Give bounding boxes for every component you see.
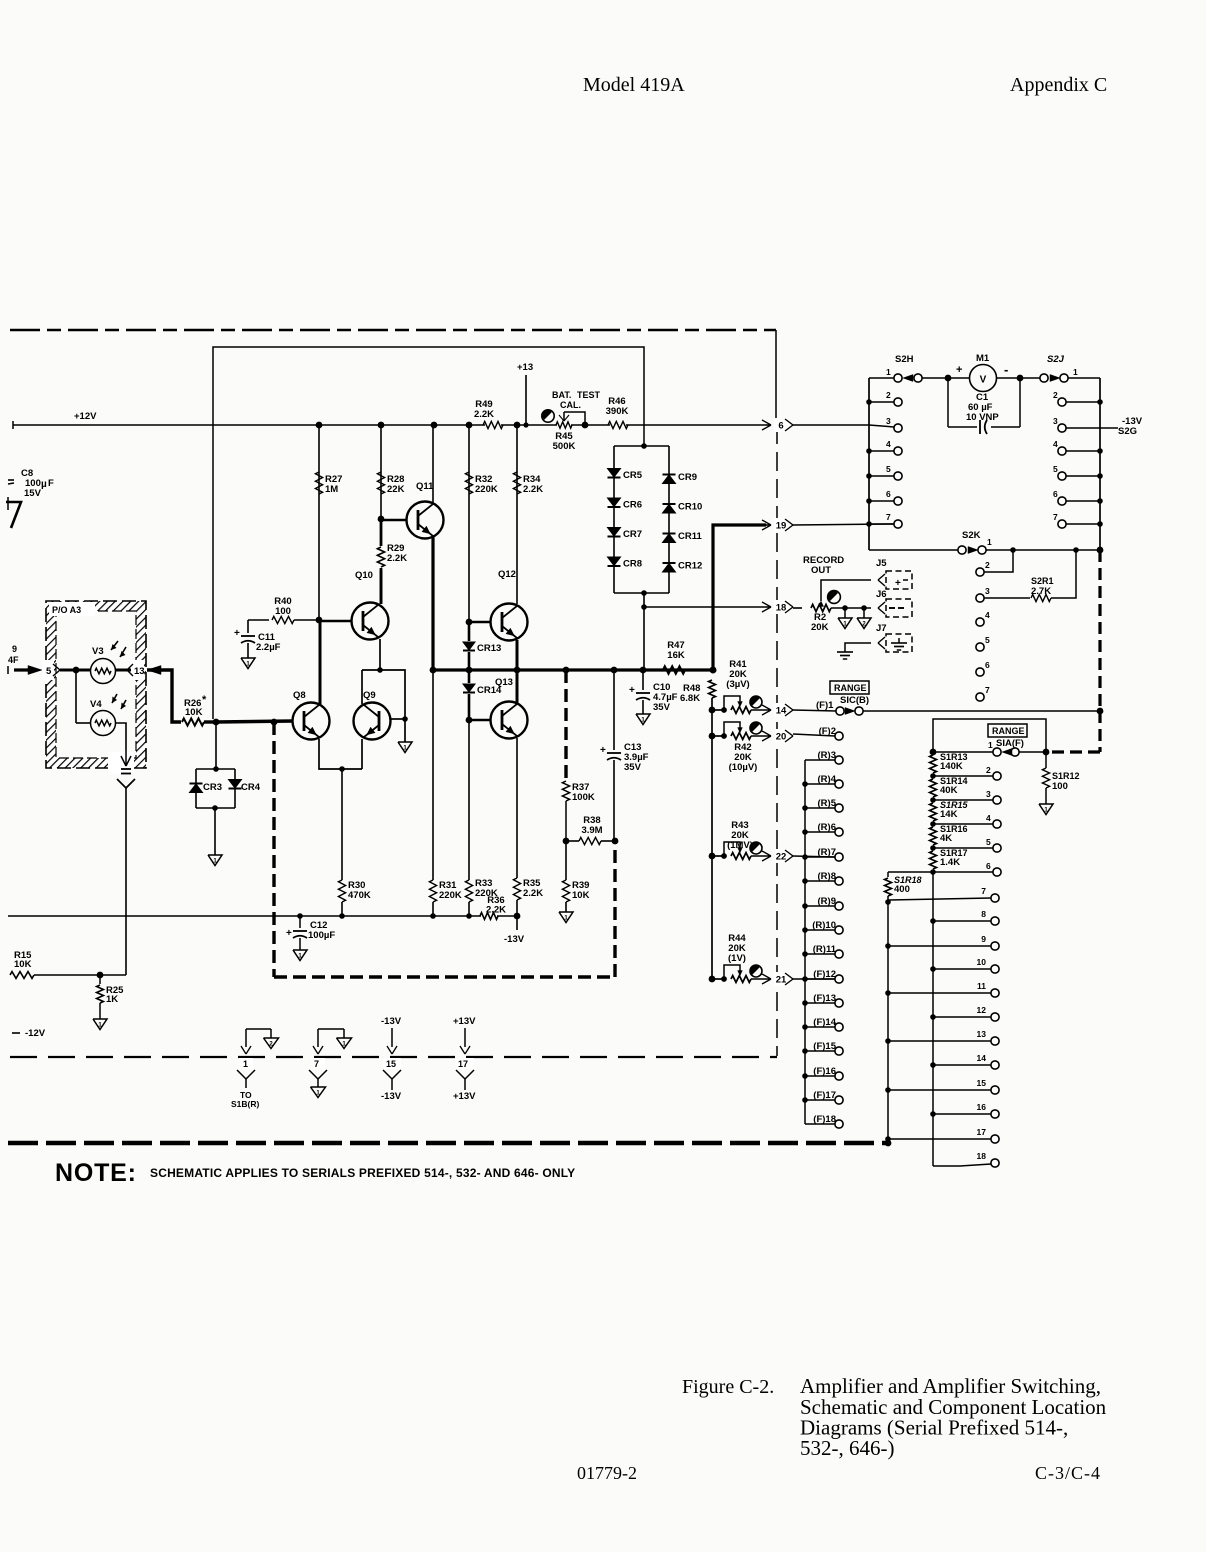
svg-text:1: 1 — [988, 740, 993, 750]
svg-text:+13V: +13V — [453, 1016, 476, 1027]
resistor R48 6.8K — [710, 667, 717, 674]
resistor R26* 10K — [182, 718, 204, 725]
pin 11 arrow out of module — [121, 756, 126, 766]
svg-text:100K: 100K — [572, 792, 595, 803]
svg-text:220K: 220K — [475, 484, 498, 495]
svg-text:J5: J5 — [876, 558, 887, 569]
Q9 emitter wire down — [361, 739, 363, 769]
thick dashed bottom border — [8, 1141, 888, 1146]
svg-text:CR4: CR4 — [241, 782, 261, 793]
svg-text:4K: 4K — [940, 833, 952, 844]
potentiometer R45 BAT TEST CAL — [556, 422, 572, 428]
svg-text:S2R1: S2R1 — [1031, 576, 1054, 586]
transistor Q8 — [293, 703, 330, 740]
contact (F)13 — [835, 999, 843, 1007]
svg-text:01779-2: 01779-2 — [577, 1463, 637, 1483]
-13V S2G tail — [1100, 427, 1118, 429]
svg-text:-12V: -12V — [25, 1028, 46, 1039]
transistor Q13 — [491, 702, 528, 739]
Q13 emitter wire — [516, 738, 518, 878]
svg-text:CR5: CR5 — [623, 470, 643, 481]
resistor S1R18 400 — [930, 869, 936, 875]
Q11 emitter wire (thick) — [431, 536, 434, 670]
node R15/R25 — [97, 972, 104, 979]
svg-text:4: 4 — [1053, 439, 1058, 449]
svg-text:NOTE:: NOTE: — [55, 1159, 137, 1187]
svg-text:C-3/C-4: C-3/C-4 — [1035, 1463, 1101, 1483]
ground below S1R12 — [1039, 804, 1053, 815]
svg-text:S2K: S2K — [962, 530, 981, 541]
resistor R27 1M — [318, 425, 320, 620]
-13V rail — [8, 915, 481, 917]
svg-text:S1R12: S1R12 — [1052, 771, 1080, 781]
connector 7 fragment at page edge — [6, 502, 21, 528]
svg-text:TEST: TEST — [577, 390, 601, 400]
svg-text:*: * — [202, 694, 207, 706]
diode bridge CR5-CR12 — [614, 445, 669, 447]
svg-text:3.9M: 3.9M — [581, 825, 602, 836]
contact (R)9 — [835, 902, 843, 910]
svg-text:CR14: CR14 — [477, 685, 502, 696]
svg-text:CAL.: CAL. — [560, 400, 581, 410]
lamp V3 — [91, 659, 116, 684]
thick input wire from R26 corner to pin13 — [147, 666, 161, 675]
svg-text:11: 11 — [977, 981, 986, 991]
connector 18 — [766, 606, 771, 608]
contact (R)6 — [835, 828, 843, 836]
svg-text:CR10: CR10 — [678, 502, 702, 513]
svg-text:M1: M1 — [976, 353, 990, 364]
RANGE label box SIC(B) — [830, 681, 869, 694]
svg-text:14: 14 — [776, 706, 787, 717]
svg-text:7: 7 — [981, 886, 986, 896]
svg-text:CR12: CR12 — [678, 561, 702, 572]
svg-text:2.2K: 2.2K — [523, 888, 543, 899]
capacitor C11 2.2uF — [247, 620, 249, 633]
ground below R25 — [93, 1019, 107, 1030]
Q9 ground — [404, 719, 406, 742]
svg-text:2.2K: 2.2K — [523, 484, 543, 495]
svg-text:2.2K: 2.2K — [387, 553, 407, 564]
loop around resistor chain — [933, 719, 1046, 752]
svg-text:3: 3 — [1053, 416, 1058, 426]
svg-text:(1V): (1V) — [728, 953, 746, 964]
transistor Q12 — [491, 604, 528, 641]
resistor R36 2.2K — [480, 913, 498, 920]
resistor R40 100 — [248, 619, 269, 621]
svg-text:SCHEMATIC APPLIES TO SERIAL: SCHEMATIC APPLIES TO SERIALS PREFIXED 51… — [150, 1166, 575, 1180]
input arrow from C9 — [7, 666, 9, 674]
diode CR13 — [468, 622, 471, 641]
connector 19 — [766, 524, 771, 526]
wire V3 to pin13 — [116, 669, 131, 672]
thick signal rail — [433, 668, 713, 671]
svg-text:1M: 1M — [325, 484, 338, 495]
svg-text:13: 13 — [134, 666, 145, 677]
ground below C11 — [241, 658, 255, 669]
svg-text:BAT.: BAT. — [552, 390, 571, 400]
contact (R)4 — [835, 780, 843, 788]
svg-text:14: 14 — [977, 1053, 987, 1063]
contact (R)7 — [835, 853, 843, 861]
svg-text:V4: V4 — [90, 699, 102, 710]
vertical dashed separator — [776, 425, 778, 1056]
svg-text:CR6: CR6 — [623, 500, 642, 511]
pin 11 mating fork — [117, 779, 126, 788]
Q12 base wire — [469, 621, 491, 624]
svg-text:7: 7 — [985, 685, 990, 695]
resistor R25 1K — [99, 975, 101, 984]
S2K contacts 4-7 open — [976, 618, 984, 626]
contact (F)12 — [835, 975, 843, 983]
wire pin5 to V3 — [60, 669, 90, 672]
svg-text:J7: J7 — [876, 623, 887, 634]
switch S2H bus — [868, 378, 870, 550]
svg-text:500K: 500K — [553, 441, 576, 452]
svg-text:CR8: CR8 — [623, 559, 642, 570]
svg-text:220K: 220K — [439, 890, 462, 901]
range divider chain S1R13-S1R17 — [930, 755, 937, 773]
Q13 base wire — [469, 719, 491, 722]
svg-text:1: 1 — [243, 1059, 248, 1069]
thick dashed wire S2K to range switch — [1098, 550, 1101, 711]
resistor R35 2.2K — [513, 878, 520, 900]
lamp V4 — [75, 670, 77, 723]
ground below C12 — [293, 950, 307, 961]
potentiometer R43 20K 1MV — [709, 853, 716, 860]
svg-text:1.4K: 1.4K — [940, 857, 960, 868]
contact (F)17 — [835, 1096, 843, 1104]
svg-text:2: 2 — [886, 390, 891, 400]
capacitor C13 3.9uF 35V — [613, 670, 615, 750]
svg-text:6.8K: 6.8K — [680, 693, 700, 704]
resistor R38 3.9M — [563, 838, 570, 845]
svg-text:1: 1 — [1073, 367, 1078, 377]
guard shield thick dashed stub — [564, 670, 567, 780]
svg-text:Model 419A: Model 419A — [583, 74, 685, 96]
svg-text:9: 9 — [981, 934, 986, 944]
Q11 base wire — [381, 519, 407, 522]
svg-text:S2H: S2H — [895, 354, 914, 365]
svg-text:100: 100 — [275, 606, 291, 617]
svg-text:CR11: CR11 — [678, 531, 702, 542]
svg-text:16: 16 — [977, 1102, 987, 1112]
svg-text:5: 5 — [1053, 464, 1058, 474]
svg-text:7: 7 — [1053, 512, 1058, 522]
J7 ground wire — [845, 643, 871, 652]
svg-text:+: + — [234, 628, 240, 639]
transistor Q9 — [354, 703, 391, 740]
svg-text:F: F — [48, 478, 54, 489]
+13 stub — [525, 375, 527, 425]
svg-text:CR9: CR9 — [678, 472, 697, 483]
svg-text:35V: 35V — [624, 762, 642, 773]
S2H contacts 2-7 — [866, 399, 872, 405]
svg-text:+: + — [286, 928, 292, 939]
transistor Q10 — [352, 603, 389, 640]
resistor R46 — [608, 421, 628, 428]
guard shield thick dashed right — [613, 841, 616, 977]
svg-text:V: V — [980, 375, 987, 386]
svg-text:J6: J6 — [876, 589, 887, 600]
svg-text:-13V: -13V — [504, 934, 525, 945]
contact (F)14 — [835, 1023, 843, 1031]
RANGE label box SIA(F) — [988, 724, 1027, 737]
svg-text:7: 7 — [886, 512, 891, 522]
node Q8/Q9 emitters — [339, 766, 345, 772]
Q11 collector wire — [432, 425, 434, 503]
S2H wiper row 1 — [869, 377, 894, 379]
resistor R34 2.2K — [516, 425, 518, 604]
svg-text:20: 20 — [776, 732, 787, 743]
guard shield thick dashed left — [272, 722, 275, 977]
svg-text:Q8: Q8 — [293, 690, 306, 701]
connector 7 — [318, 1028, 344, 1030]
svg-text:RANGE: RANGE — [834, 683, 867, 693]
svg-text:2.2K: 2.2K — [474, 409, 494, 420]
diode pair CR3 CR4 — [215, 722, 217, 769]
svg-text:14K: 14K — [940, 809, 958, 820]
contacts 7-18 — [888, 898, 991, 900]
svg-text:5: 5 — [46, 666, 52, 677]
svg-text:P/O A3: P/O A3 — [52, 605, 81, 615]
guard shield thick dashed bottom — [274, 975, 615, 978]
resistor S2R1 2.7K — [976, 594, 984, 602]
svg-text:4: 4 — [886, 439, 891, 449]
svg-text:(3µV): (3µV) — [726, 679, 749, 690]
svg-text:2: 2 — [986, 765, 991, 775]
svg-text:-13V: -13V — [381, 1091, 402, 1102]
connector 6 to S2H — [766, 424, 771, 426]
svg-text:CR7: CR7 — [623, 529, 642, 540]
svg-text:18: 18 — [977, 1151, 987, 1161]
resistor R47 16K — [663, 666, 685, 673]
svg-text:OUT: OUT — [811, 565, 831, 576]
resistor R30 470K — [338, 880, 345, 902]
resistor R28 22K — [380, 425, 382, 519]
svg-text:2.2K: 2.2K — [486, 905, 506, 916]
svg-text:390K: 390K — [606, 406, 629, 417]
svg-text:3: 3 — [886, 416, 891, 426]
wire V4 to pin 11 — [116, 723, 126, 750]
svg-text:2: 2 — [1053, 390, 1058, 400]
resistor S1R12 100 — [1045, 752, 1047, 768]
svg-text:17: 17 — [977, 1127, 987, 1137]
svg-text:13: 13 — [977, 1029, 987, 1039]
svg-text:1: 1 — [886, 367, 891, 377]
svg-text:532-, 646-): 532-, 646-) — [800, 1436, 894, 1460]
meter M1 — [945, 375, 952, 382]
svg-text:+: + — [629, 685, 635, 696]
svg-text:10: 10 — [977, 957, 987, 967]
potentiometer R42 20K 10uV — [709, 733, 716, 740]
resistor R31 220K — [432, 670, 434, 880]
connector 1 to S1B(R) — [246, 1028, 271, 1030]
svg-text:100µF: 100µF — [308, 930, 335, 941]
svg-text:18: 18 — [776, 603, 787, 614]
switch contact column bus — [804, 760, 806, 1124]
contact (F)16 — [835, 1072, 843, 1080]
svg-text:6: 6 — [886, 489, 891, 499]
svg-text:S1B(R): S1B(R) — [231, 1099, 260, 1109]
wire R2 wiper dots — [831, 607, 871, 609]
svg-text:+: + — [956, 364, 962, 376]
svg-text:+: + — [600, 745, 606, 756]
contact (R)3 — [835, 756, 843, 764]
S2J contacts 2-7 — [1058, 398, 1066, 406]
svg-text:RANGE: RANGE — [992, 726, 1025, 736]
svg-text:CR3: CR3 — [203, 782, 222, 793]
svg-text:(F)2: (F)2 — [819, 726, 836, 737]
potentiometer R41 20K 3uV — [709, 707, 716, 714]
svg-text:(1MV): (1MV) — [727, 840, 753, 851]
svg-text:1K: 1K — [106, 994, 118, 1005]
svg-text:-: - — [1004, 362, 1008, 377]
svg-text:5: 5 — [886, 464, 891, 474]
svg-text:5: 5 — [986, 837, 991, 847]
svg-text:6: 6 — [778, 421, 783, 432]
contact (R)10 — [835, 926, 843, 934]
wire 22 to R7 — [793, 856, 835, 857]
svg-text:S2G: S2G — [1118, 426, 1137, 437]
svg-text:6: 6 — [1053, 489, 1058, 499]
svg-text:V3: V3 — [92, 646, 104, 657]
svg-text:9: 9 — [12, 644, 17, 654]
svg-text:4: 4 — [986, 813, 991, 823]
chain lower bus — [932, 872, 934, 1166]
svg-text:4F: 4F — [8, 655, 19, 665]
wire 6 to S2H contact 3 — [793, 424, 869, 426]
svg-text:10K: 10K — [572, 890, 590, 901]
S2J wiper row 1 — [1022, 377, 1040, 379]
svg-text:+12V: +12V — [74, 411, 97, 422]
Q10 base wire — [319, 620, 352, 623]
svg-text:100: 100 — [1052, 781, 1068, 792]
svg-text:(10µV): (10µV) — [729, 762, 758, 773]
svg-text:4: 4 — [985, 610, 990, 620]
svg-text:21: 21 — [776, 975, 787, 986]
resistor R37 100K — [562, 781, 569, 801]
ground below C10 — [636, 714, 650, 725]
svg-text:8: 8 — [981, 909, 986, 919]
svg-text:6: 6 — [985, 660, 990, 670]
svg-text:+: + — [895, 578, 901, 589]
node dots on +12V rail — [316, 422, 323, 429]
svg-text:15V: 15V — [24, 488, 42, 499]
svg-text:22K: 22K — [387, 484, 405, 495]
S2K contact 2 — [976, 568, 984, 576]
wire 18 to R2 — [793, 607, 802, 609]
contact (F)2 — [835, 732, 843, 740]
resistor R39 10K — [565, 841, 567, 880]
svg-text:10 VNP: 10 VNP — [966, 412, 999, 423]
capacitor C12 100uF — [299, 916, 301, 928]
contact (F)15 — [835, 1047, 843, 1055]
switch S2K bus — [869, 549, 958, 551]
svg-text:12: 12 — [977, 1005, 987, 1015]
label -12V — [12, 1032, 20, 1034]
svg-text:CR13: CR13 — [477, 643, 501, 654]
svg-text:15: 15 — [386, 1059, 396, 1069]
resistor R33 220K — [468, 720, 470, 880]
wire diode bridge to 18 — [643, 593, 645, 670]
svg-text:19: 19 — [776, 521, 787, 532]
svg-text:SIA(F): SIA(F) — [996, 738, 1024, 749]
Q9 base wire — [390, 718, 405, 720]
Q13 collector wire — [516, 670, 519, 703]
svg-text:10K: 10K — [14, 959, 32, 970]
svg-text:3: 3 — [985, 586, 990, 596]
svg-text:-13V: -13V — [381, 1016, 402, 1027]
svg-text:+13V: +13V — [453, 1091, 476, 1102]
svg-text:140K: 140K — [940, 761, 963, 772]
dash-dot outer boundary top — [10, 329, 776, 332]
ground below R39 — [559, 912, 573, 923]
svg-text:5: 5 — [985, 635, 990, 645]
svg-text:400: 400 — [894, 884, 910, 895]
svg-text:22: 22 — [776, 852, 787, 863]
svg-text:µ: µ — [41, 479, 47, 490]
Q8 collector wire thick — [319, 620, 322, 704]
resistor R32 220K — [468, 425, 470, 622]
svg-text:Q11: Q11 — [416, 481, 434, 492]
svg-text:Q9: Q9 — [363, 690, 376, 701]
Q8 emitter wire — [319, 739, 362, 769]
svg-text:10K: 10K — [185, 707, 203, 718]
diode CR14 — [468, 670, 471, 683]
svg-text:40K: 40K — [940, 785, 958, 796]
ground 1 below R2 — [844, 608, 846, 618]
ground 2 below R2 — [863, 608, 865, 618]
svg-text:6: 6 — [986, 861, 991, 871]
Q10 emitter wire — [379, 639, 381, 670]
svg-text:7: 7 — [314, 1059, 319, 1069]
wire 19 thick — [713, 525, 766, 670]
V3 light arrows — [111, 641, 126, 657]
svg-text:SIC(B): SIC(B) — [840, 695, 869, 706]
Q10 collector wire — [380, 570, 383, 604]
wire 21 to F12 — [793, 978, 835, 980]
switch S2J bus — [1099, 378, 1101, 550]
-13V tail below R35 — [514, 913, 521, 920]
chain taps to contacts 2-6 — [933, 775, 993, 777]
svg-text:470K: 470K — [348, 890, 371, 901]
svg-text:20K: 20K — [811, 622, 829, 633]
resistor R49 — [483, 421, 503, 428]
svg-text:1: 1 — [987, 537, 992, 547]
svg-text:17: 17 — [458, 1059, 468, 1069]
svg-text:Figure C-2.: Figure C-2. — [682, 1376, 774, 1398]
wire 20 to F2 — [793, 734, 835, 736]
boundary corner vertical solid — [775, 330, 777, 425]
dashed boundary bottom horizontal — [10, 1056, 777, 1058]
transistor Q11 — [407, 502, 444, 539]
svg-text:2: 2 — [985, 560, 990, 570]
svg-text:15: 15 — [977, 1078, 987, 1088]
capacitor C1 60uF 10VNP — [947, 378, 949, 427]
CR3/CR4 ground — [214, 808, 216, 855]
svg-text:+13: +13 — [517, 362, 533, 373]
svg-text:Appendix C: Appendix C — [1010, 74, 1107, 96]
contact (R)11 — [835, 950, 843, 958]
svg-text:35V: 35V — [653, 702, 671, 713]
Q12 emitter wire — [516, 640, 519, 670]
contact (R)5 — [835, 804, 843, 812]
contact (R)8 — [835, 877, 843, 885]
contact (F)18 — [835, 1120, 843, 1128]
svg-text:S2J: S2J — [1047, 354, 1065, 365]
svg-text:2.7K: 2.7K — [1031, 586, 1051, 597]
